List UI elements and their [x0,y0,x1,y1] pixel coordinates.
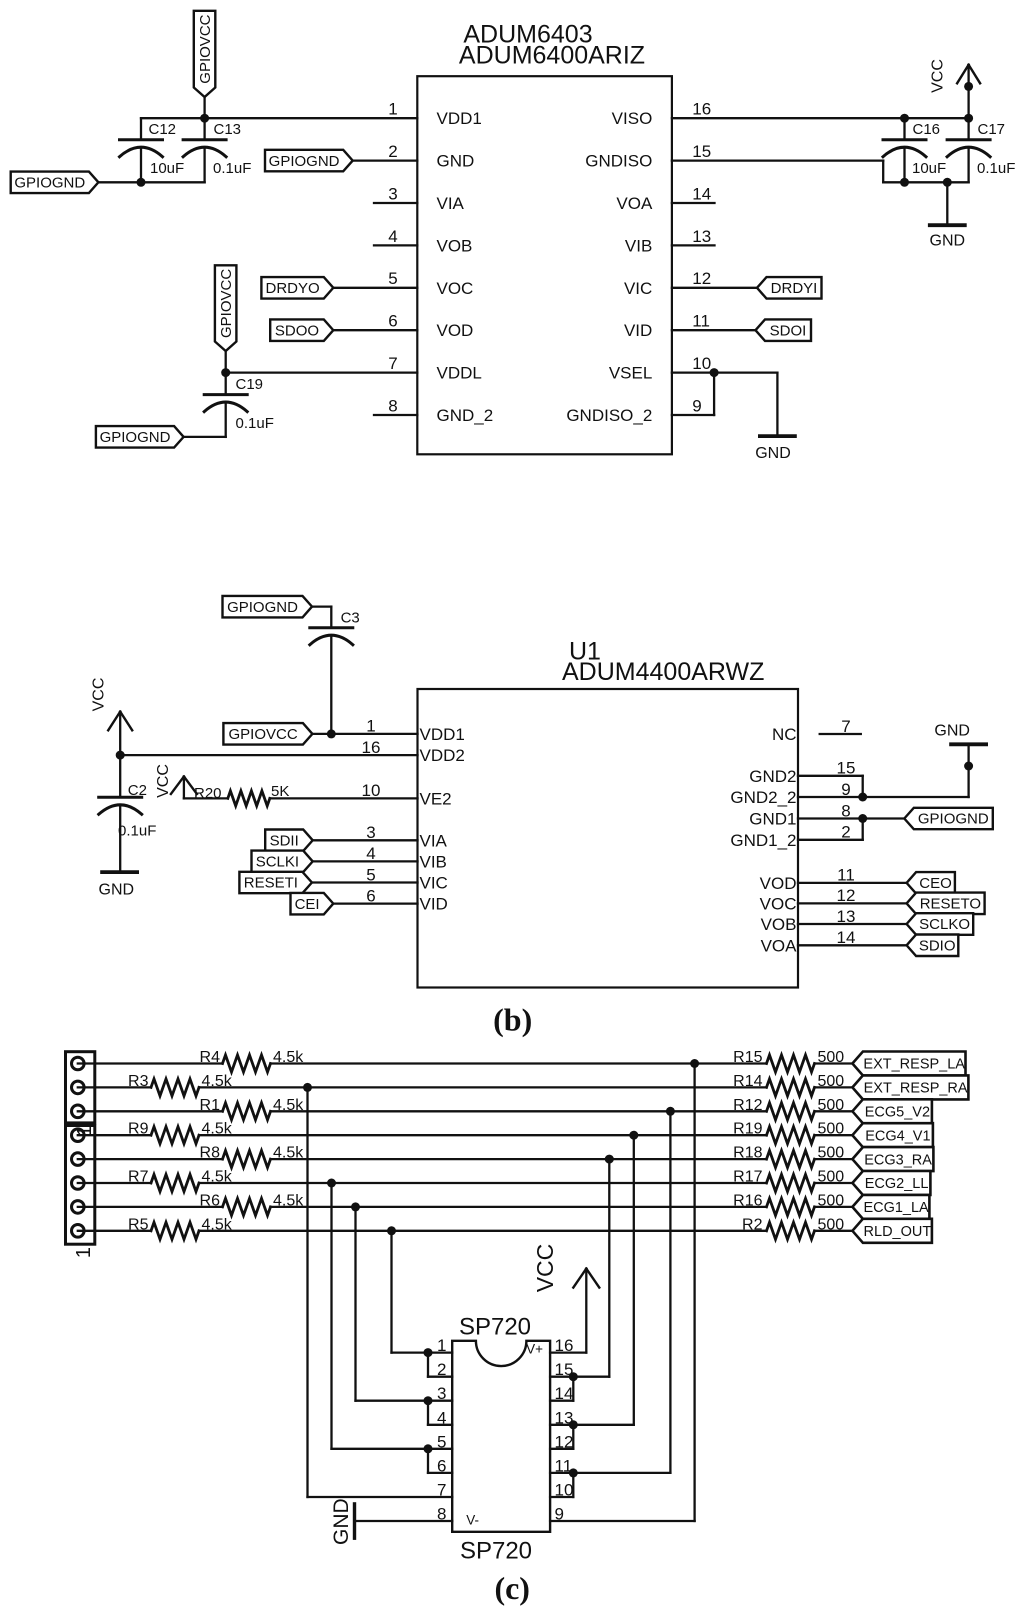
svg-text:2: 2 [388,142,397,161]
svg-text:VOD: VOD [760,874,797,893]
svg-text:C12: C12 [149,121,177,138]
svg-text:(b): (b) [493,1002,532,1038]
svg-text:R17: R17 [733,1169,762,1186]
svg-text:VIB: VIB [625,236,652,255]
svg-text:SP720: SP720 [460,1538,532,1565]
svg-text:ADUM4400ARWZ: ADUM4400ARWZ [562,658,764,686]
svg-text:10uF: 10uF [912,160,946,177]
svg-text:500: 500 [818,1145,845,1162]
svg-text:GPIOVCC: GPIOVCC [197,14,214,83]
svg-text:10uF: 10uF [150,160,184,177]
svg-text:GND: GND [755,445,791,462]
svg-text:1: 1 [73,1247,95,1258]
svg-text:VE2: VE2 [420,789,452,808]
svg-text:VOA: VOA [761,936,798,955]
svg-text:SCLKI: SCLKI [256,854,299,871]
svg-text:VIA: VIA [437,194,465,213]
svg-text:GNDISO: GNDISO [585,152,652,171]
svg-text:R5: R5 [128,1216,149,1233]
svg-text:NC: NC [772,725,797,744]
svg-text:500: 500 [818,1192,845,1209]
svg-text:CEI: CEI [295,896,320,913]
svg-text:0.1uF: 0.1uF [236,415,274,432]
svg-text:14: 14 [692,184,711,203]
svg-text:R4: R4 [200,1049,221,1066]
svg-text:11: 11 [692,312,710,331]
svg-text:EXT_RESP_LA: EXT_RESP_LA [863,1057,965,1073]
svg-text:GPIOGND: GPIOGND [14,175,85,192]
svg-text:6: 6 [388,312,397,331]
svg-text:GPIOGND: GPIOGND [100,429,171,446]
svg-text:VID: VID [624,321,652,340]
svg-text:GND: GND [99,882,135,899]
svg-text:4.5k: 4.5k [273,1192,304,1209]
svg-text:ECG5_V2: ECG5_V2 [865,1105,930,1121]
svg-text:ECG3_RA: ECG3_RA [864,1152,932,1168]
svg-text:4.5k: 4.5k [273,1145,304,1162]
svg-text:RESETI: RESETI [244,875,298,892]
svg-text:500: 500 [818,1097,845,1114]
svg-text:500: 500 [818,1121,845,1138]
svg-text:4.5k: 4.5k [202,1216,233,1233]
svg-text:ECG1_LA: ECG1_LA [863,1200,929,1216]
svg-text:500: 500 [818,1049,845,1066]
svg-text:GPIOVCC: GPIOVCC [218,269,235,338]
svg-text:R9: R9 [128,1121,149,1138]
svg-text:CEO: CEO [919,875,952,892]
svg-text:GND: GND [930,233,966,250]
svg-text:SDOO: SDOO [275,322,319,339]
svg-text:VOA: VOA [616,194,653,213]
svg-text:GND1: GND1 [749,810,796,829]
svg-text:VSEL: VSEL [609,364,652,383]
svg-text:8: 8 [388,396,397,415]
svg-text:VDD1: VDD1 [437,109,482,128]
svg-text:V-: V- [466,1512,479,1527]
svg-text:R20: R20 [194,785,222,802]
svg-text:VCC: VCC [532,1244,558,1293]
svg-text:VIC: VIC [420,874,448,893]
svg-text:R6: R6 [200,1192,221,1209]
svg-text:SP720: SP720 [459,1314,531,1341]
svg-text:R1: R1 [200,1097,221,1114]
svg-text:GND: GND [934,723,970,740]
svg-text:R14: R14 [733,1073,762,1090]
svg-text:500: 500 [818,1169,845,1186]
svg-text:R15: R15 [733,1049,762,1066]
svg-text:VDDL: VDDL [437,364,482,383]
svg-text:13: 13 [692,227,711,246]
svg-text:R19: R19 [733,1121,762,1138]
svg-text:4.5k: 4.5k [202,1121,233,1138]
svg-text:0.1uF: 0.1uF [977,160,1015,177]
svg-text:C19: C19 [236,376,264,393]
svg-text:4.5k: 4.5k [273,1097,304,1114]
svg-text:VDD1: VDD1 [420,725,465,744]
svg-text:9: 9 [692,396,701,415]
svg-text:12: 12 [692,269,711,288]
svg-text:VIA: VIA [420,831,448,850]
svg-text:GND: GND [330,1498,353,1545]
svg-text:10: 10 [692,354,711,373]
svg-text:GPIOGND: GPIOGND [269,153,340,170]
svg-text:R3: R3 [128,1073,149,1090]
svg-text:R2: R2 [742,1216,763,1233]
svg-text:R7: R7 [128,1169,149,1186]
svg-text:4.5k: 4.5k [202,1073,233,1090]
svg-text:C13: C13 [214,121,242,138]
svg-text:GPIOGND: GPIOGND [918,811,989,828]
svg-text:R16: R16 [733,1192,762,1209]
svg-text:VOB: VOB [761,915,797,934]
svg-text:VISO: VISO [612,109,653,128]
svg-text:C17: C17 [978,121,1006,138]
svg-text:C2: C2 [128,782,147,799]
svg-text:VCC: VCC [930,59,947,93]
svg-text:SCLKO: SCLKO [919,916,970,933]
svg-text:GNDISO_2: GNDISO_2 [566,406,652,425]
svg-text:VOB: VOB [437,236,473,255]
svg-text:GND_2: GND_2 [437,406,494,425]
svg-text:GND: GND [437,152,475,171]
svg-text:GND2: GND2 [749,767,796,786]
svg-text:GND2_2: GND2_2 [730,788,796,807]
svg-text:C16: C16 [913,121,941,138]
svg-text:16: 16 [692,100,711,119]
svg-text:ECG2_LL: ECG2_LL [865,1176,929,1192]
svg-text:RESETO: RESETO [920,896,981,913]
svg-text:VCC: VCC [91,678,108,712]
svg-text:VDD2: VDD2 [420,746,465,765]
svg-text:C3: C3 [341,610,360,627]
svg-text:SDII: SDII [270,833,299,850]
svg-text:4.5k: 4.5k [202,1169,233,1186]
svg-text:V+: V+ [526,1342,543,1357]
svg-text:R18: R18 [733,1145,762,1162]
svg-text:0.1uF: 0.1uF [213,160,251,177]
svg-text:DRDYO: DRDYO [266,280,320,297]
svg-text:GPIOGND: GPIOGND [227,599,298,616]
svg-text:GPIOVCC: GPIOVCC [229,726,298,743]
svg-text:500: 500 [818,1216,845,1233]
svg-text:0.1uF: 0.1uF [118,823,156,840]
svg-text:GND1_2: GND1_2 [730,831,796,850]
svg-text:4: 4 [388,227,397,246]
svg-text:15: 15 [692,142,711,161]
svg-text:VID: VID [420,895,448,914]
svg-text:EXT_RESP_RA: EXT_RESP_RA [864,1081,968,1097]
svg-text:7: 7 [388,354,397,373]
svg-text:5: 5 [388,269,397,288]
svg-text:VOC: VOC [760,894,797,913]
svg-text:DRDYI: DRDYI [771,280,818,297]
svg-text:500: 500 [818,1073,845,1090]
svg-text:VOC: VOC [437,279,474,298]
svg-text:1: 1 [388,100,397,119]
svg-text:VCC: VCC [155,764,172,798]
svg-text:5K: 5K [271,783,289,800]
svg-text:SDIO: SDIO [919,938,956,955]
svg-text:R12: R12 [733,1097,762,1114]
svg-text:4.5k: 4.5k [273,1049,304,1066]
svg-text:ADUM6400ARIZ: ADUM6400ARIZ [459,42,645,70]
svg-text:VIB: VIB [420,852,447,871]
svg-text:RLD_OUT: RLD_OUT [864,1224,932,1240]
svg-text:3: 3 [388,184,397,203]
svg-text:VOD: VOD [437,321,474,340]
svg-text:R8: R8 [200,1145,221,1162]
svg-text:ECG4_V1: ECG4_V1 [865,1128,930,1144]
svg-text:VIC: VIC [624,279,652,298]
svg-text:SDOI: SDOI [770,322,807,339]
svg-text:(c): (c) [494,1570,530,1606]
